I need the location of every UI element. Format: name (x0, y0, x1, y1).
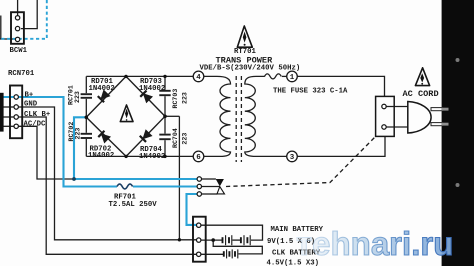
svg-text:223: 223 (181, 92, 188, 104)
svg-text:6: 6 (196, 154, 201, 162)
svg-text:VDE/B-S(230V/240V 50Hz): VDE/B-S(230V/240V 50Hz) (200, 65, 301, 73)
svg-text:RC703: RC703 (172, 89, 179, 109)
svg-text:TRANS POWER: TRANS POWER (216, 55, 274, 65)
svg-text:BCW1: BCW1 (10, 47, 28, 55)
svg-text:AC CORD: AC CORD (403, 89, 439, 99)
svg-text:223: 223 (74, 91, 81, 103)
svg-text:1N4002: 1N4002 (139, 85, 165, 93)
svg-text:RC704: RC704 (172, 128, 179, 148)
svg-text:223: 223 (75, 128, 82, 140)
svg-text:T2.5AL 250V: T2.5AL 250V (109, 201, 158, 209)
svg-text:AC/DC: AC/DC (24, 120, 47, 128)
svg-text:THE FUSE 323 C-1A: THE FUSE 323 C-1A (273, 87, 348, 95)
svg-text:CLK B+: CLK B+ (24, 111, 51, 119)
svg-text:1N4002: 1N4002 (88, 152, 114, 160)
svg-text:223: 223 (181, 133, 188, 145)
svg-text:1: 1 (290, 74, 295, 82)
svg-text:GND: GND (24, 100, 38, 108)
svg-text:B+: B+ (25, 92, 34, 100)
svg-text:3: 3 (290, 154, 295, 162)
svg-text:тehnari.ru: тehnari.ru (296, 225, 453, 262)
svg-text:4: 4 (196, 74, 201, 82)
svg-text:RCN701: RCN701 (8, 70, 35, 78)
svg-text:1N4002: 1N4002 (139, 153, 165, 161)
svg-text:1N4002: 1N4002 (89, 85, 115, 93)
